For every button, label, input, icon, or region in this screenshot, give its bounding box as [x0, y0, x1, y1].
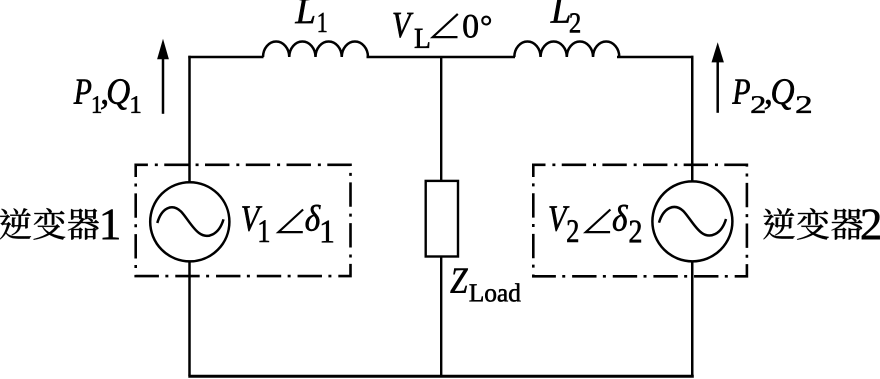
- wire bottom horizontal: [188, 375, 694, 378]
- label V2 angle delta2: [549, 205, 640, 243]
- dash-dot enclosure box inverter 1: [136, 165, 351, 276]
- label inverter 1 (Chinese): [0, 208, 99, 240]
- wire right vertical upper: [691, 56, 694, 182]
- wire top horizontal right segment: [617, 56, 693, 58]
- wire left vertical upper: [188, 56, 191, 183]
- wire center vertical upper: [440, 57, 442, 181]
- label Z_Load: [450, 268, 520, 301]
- label P1,Q1: [74, 79, 141, 113]
- impedance Z_Load rectangle: [426, 181, 458, 257]
- dash-dot enclosure box inverter 2: [533, 165, 747, 276]
- arrow P2 direction: [712, 42, 724, 113]
- label L1: [295, 0, 326, 32]
- label inverter 2 digit: [862, 209, 880, 239]
- label P2,Q2: [732, 79, 811, 113]
- sine wave inside source 2: [659, 207, 726, 235]
- inductor L2: [514, 41, 619, 57]
- label V1 angle delta1: [242, 205, 333, 243]
- node label VL angle 0deg: [393, 13, 490, 48]
- sine wave inside source 1: [157, 207, 223, 235]
- inductor L1: [263, 41, 368, 57]
- wire right vertical lower: [691, 261, 694, 376]
- wire center vertical lower: [440, 256, 442, 376]
- AC source circle U1: [150, 182, 229, 261]
- arrow P1 direction: [157, 39, 169, 114]
- wire top horizontal left segment: [188, 56, 263, 58]
- wire top horizontal middle segment: [367, 56, 516, 58]
- label inverter 1 digit: [103, 209, 119, 239]
- label inverter 2 (Chinese): [763, 208, 862, 240]
- AC source circle U2: [652, 181, 732, 261]
- wire left vertical lower: [188, 261, 191, 376]
- label L2: [550, 0, 579, 33]
